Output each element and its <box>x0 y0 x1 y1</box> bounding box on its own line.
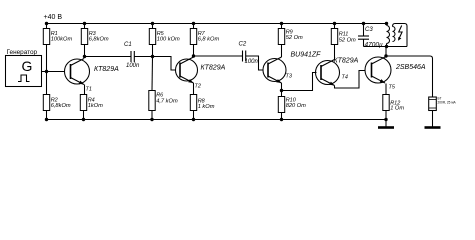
svg-text:52 Om: 52 Om <box>286 35 303 41</box>
node C1 / R5 / R6 / T2 base <box>151 55 154 58</box>
resistor R4 <box>80 95 103 111</box>
wire C2 to T3 base <box>246 56 263 70</box>
svg-text:+40 В: +40 В <box>44 14 63 21</box>
wire T4 collector to R11 <box>334 45 336 60</box>
svg-text:6,8kOm: 6,8kOm <box>89 37 109 43</box>
wire R3 top lead <box>84 24 86 29</box>
wire R9 top lead <box>281 24 283 29</box>
junction R11 / +40V rail <box>333 22 336 25</box>
wire node to T2 base <box>153 57 176 71</box>
node T5 top / BT branch <box>384 54 387 57</box>
wire C3 bottom lead <box>363 39 365 46</box>
svg-text:100kOm: 100kOm <box>51 37 73 43</box>
wire R12 bottom lead <box>385 111 387 120</box>
generator G1 box <box>6 56 42 87</box>
node coil / C3 / T5 / speaker <box>385 45 388 48</box>
wire T2 collector node to C2 <box>194 55 243 57</box>
svg-text:1kOm: 1kOm <box>88 103 103 109</box>
svg-text:G: G <box>22 58 33 74</box>
resistor R10 <box>278 97 306 113</box>
wire T3 emitter node to T4 base <box>282 73 317 91</box>
svg-text:4700µ: 4700µ <box>365 42 383 49</box>
resistor R11 <box>331 29 356 45</box>
transistor T5 2SB546A <box>365 57 391 83</box>
svg-text:1 kOm: 1 kOm <box>198 104 215 110</box>
junction R6 / bottom rail <box>150 118 153 121</box>
resistor R2 <box>43 95 71 111</box>
wire T1 emitter to R4 <box>84 85 86 95</box>
resistor R12 <box>383 95 405 112</box>
junction R9 / +40V rail <box>280 22 283 25</box>
capacitor C3 4700u <box>358 27 383 49</box>
node T3 emitter / R10 / T4 base wire <box>280 89 283 92</box>
junction R3 / +40V rail <box>83 22 86 25</box>
loudspeaker lightning arrow <box>399 26 402 39</box>
wire generator output to T1 base <box>42 71 65 73</box>
svg-text:1 Om: 1 Om <box>390 106 404 112</box>
wire T2 emitter to R8 <box>193 83 195 95</box>
capacitor C1 <box>124 42 140 69</box>
resistor R3 <box>81 29 109 45</box>
wire T2 collector to R7 <box>193 45 195 57</box>
loudspeaker BA1 coil and frame <box>393 24 408 47</box>
transistor T3 BU941ZF <box>263 57 286 83</box>
junction R10 / bottom rail <box>280 118 283 121</box>
wire speaker bottom <box>387 46 408 48</box>
svg-text:Т2: Т2 <box>195 84 201 90</box>
junction R8 / bottom rail <box>192 118 195 121</box>
wire output node to BT <box>386 56 433 97</box>
svg-text:Генератор: Генератор <box>7 49 38 56</box>
svg-text:C2: C2 <box>239 42 247 48</box>
junction R7 / +40V rail <box>192 22 195 25</box>
svg-text:Т3: Т3 <box>286 74 293 80</box>
inductor L1 output choke coil <box>387 26 390 44</box>
svg-text:КТ829А: КТ829А <box>334 58 359 65</box>
wire T1 collector to C1 <box>85 56 131 58</box>
resistor R9 <box>278 29 303 45</box>
wire R8 bottom lead <box>193 111 195 120</box>
wire R2 bottom lead <box>46 111 48 120</box>
transistor T1 KT829A <box>65 59 90 85</box>
wire R6 bottom lead <box>151 111 153 120</box>
resistor R7 <box>190 29 219 45</box>
telephone capsule BT <box>429 97 457 111</box>
wire R5 bottom lead <box>152 45 154 57</box>
wire R10 bottom lead <box>281 113 283 120</box>
ground symbol under BT <box>425 126 441 129</box>
node T1 collector / R3 / C1 <box>83 55 86 58</box>
wire T3 emitter down <box>281 83 283 91</box>
node T2 collector / R7 / C2 <box>192 54 195 57</box>
svg-text:200R, 25 мА: 200R, 25 мА <box>438 101 457 105</box>
transistor T2 KT829A <box>176 57 198 83</box>
resistor R1 <box>43 29 72 45</box>
wire R11 top lead <box>334 24 336 29</box>
ground/common bottom rail <box>47 119 387 121</box>
svg-text:C3: C3 <box>365 27 373 33</box>
svg-text:100 kOm: 100 kOm <box>157 37 180 43</box>
wire C3 top lead <box>363 24 365 37</box>
svg-text:КТ829А: КТ829А <box>201 65 226 72</box>
+40V power rail <box>47 23 387 25</box>
svg-text:КТ829А: КТ829А <box>94 66 119 73</box>
junction C3 / +40V rail <box>362 22 365 25</box>
resistor R8 <box>190 95 214 111</box>
junction R5 / +40V rail <box>151 22 154 25</box>
wire T3 collector to R9 <box>281 45 283 57</box>
svg-text:BU941ZF: BU941ZF <box>291 52 322 59</box>
wire T1 collector to R3 <box>84 45 86 58</box>
generator square-wave symbol <box>18 75 30 82</box>
capacitor C2 <box>239 42 259 66</box>
resistor R5 <box>149 29 180 45</box>
junction R4 / bottom rail <box>82 118 85 121</box>
svg-text:2SB546A: 2SB546A <box>395 64 426 71</box>
svg-text:Т5: Т5 <box>389 85 396 91</box>
wire C1 to R5/R6 node <box>135 56 153 58</box>
svg-text:Т1: Т1 <box>86 87 92 93</box>
svg-text:100n: 100n <box>245 59 259 65</box>
wire C3 to output node <box>364 46 387 48</box>
transistor T4 KT829A <box>316 60 340 86</box>
wire R4 bottom lead <box>83 111 85 120</box>
junction R1 / +40V rail <box>45 22 48 25</box>
svg-text:100n: 100n <box>126 63 140 69</box>
wire R7 top lead <box>193 24 195 29</box>
svg-text:C1: C1 <box>124 42 132 48</box>
junction R2 / bottom rail <box>45 118 48 121</box>
svg-text:820 Om: 820 Om <box>286 103 306 109</box>
junction coil / +40V rail <box>385 22 388 25</box>
wire coil bottom <box>386 44 388 47</box>
wire R1 top lead <box>46 24 48 29</box>
resistor R6 <box>149 91 178 111</box>
wire R1 bottom to R2 top (node base T1) <box>46 45 48 95</box>
ground symbol under R12 <box>378 120 394 128</box>
node generator / R1 / R2 / T1 base <box>45 70 48 73</box>
wire node to R6 top <box>151 57 154 91</box>
svg-text:Т4: Т4 <box>342 75 348 81</box>
wire BT to ground <box>432 111 434 128</box>
wire T5 top lead to output node <box>385 47 387 57</box>
svg-text:4,7 kOm: 4,7 kOm <box>156 99 178 105</box>
junction R12 / bottom rail / ground <box>384 118 387 121</box>
svg-text:6,8kOm: 6,8kOm <box>51 103 71 109</box>
wire T4 emitter to T5 base <box>335 71 366 89</box>
svg-text:6,8 kOm: 6,8 kOm <box>198 37 220 43</box>
wire T5 bottom lead to R12 <box>385 84 387 95</box>
wire R5 top lead <box>152 24 154 29</box>
svg-text:52 Om: 52 Om <box>339 38 356 44</box>
wire node to R10 top <box>281 91 283 97</box>
